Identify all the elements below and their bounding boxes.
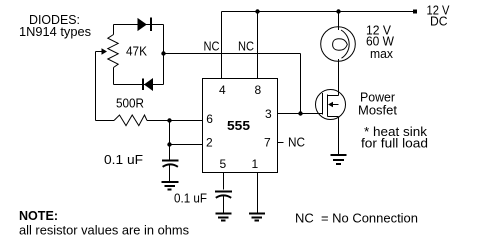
svg-text:0.1 uF: 0.1 uF: [104, 152, 143, 167]
gate bar: [322, 93, 324, 115]
drain internal: [328, 95, 339, 97]
svg-text:2: 2: [206, 136, 213, 150]
node junction pin2: [167, 142, 171, 146]
ground under C1: [162, 181, 179, 183]
channel bar: [327, 95, 329, 117]
wire pin3 to gate: [278, 113, 323, 115]
wire wiper to resistor: [96, 120, 115, 122]
wire pot loop top: [114, 24, 164, 26]
svg-text:all resistor values are in ohm: all resistor values are in ohms: [19, 223, 189, 238]
wire down to pin2 junction: [169, 121, 171, 160]
wire pot bottom lead: [113, 68, 115, 85]
svg-text:500R: 500R: [116, 96, 144, 111]
wire lamp top lead: [338, 12, 340, 31]
svg-text:1: 1: [252, 157, 259, 171]
svg-text:5: 5: [220, 157, 227, 171]
resistor R2 500R: [114, 115, 147, 126]
node rail/pin8: [255, 9, 259, 13]
svg-text:0.1 uF: 0.1 uF: [174, 191, 207, 206]
ground under mosfet: [331, 154, 347, 156]
capacitor C2 0.1uF: [215, 191, 232, 193]
ground under C2: [216, 213, 232, 215]
svg-text:DC: DC: [430, 14, 448, 29]
diode D1 (top, pointing right): [138, 19, 146, 30]
svg-text:7: 7: [264, 136, 271, 150]
pin 7 stub: [278, 142, 284, 144]
wire pot loop right side: [163, 25, 165, 85]
svg-text:NC: NC: [288, 135, 305, 150]
wire pin2: [170, 144, 203, 146]
node junction pin3: [298, 111, 302, 115]
svg-text:3: 3: [265, 107, 272, 121]
svg-text:8: 8: [255, 83, 262, 97]
wire top supply rail: [222, 11, 414, 13]
svg-text:Mosfet: Mosfet: [358, 103, 397, 118]
svg-text:4: 4: [219, 83, 226, 97]
svg-text:6: 6: [206, 112, 213, 126]
svg-text:NC: NC: [204, 39, 220, 54]
svg-text:NC: NC: [238, 39, 254, 54]
wire cross horizontal to pin3: [164, 53, 301, 55]
node junction at cap/pin6: [167, 118, 171, 122]
potentiometer R1 47K body: [108, 35, 118, 68]
transistor Q1 power mosfet: [316, 90, 346, 120]
substrate arrow: [332, 104, 339, 106]
wire pin1 down: [257, 173, 259, 213]
svg-text:NOTE:: NOTE:: [19, 208, 58, 223]
wire pot loop bottom: [114, 84, 164, 86]
wire wiper down: [95, 52, 97, 121]
svg-text:max: max: [370, 46, 393, 61]
svg-text:555: 555: [227, 118, 250, 133]
wire pin4 up: [221, 12, 223, 79]
lamp LP1: [321, 27, 356, 62]
op-amp U1 555 timer box: [203, 79, 278, 173]
wiper arrow: [96, 51, 103, 53]
svg-text:47K: 47K: [126, 44, 147, 59]
wire pot top lead: [113, 25, 115, 35]
node rail/lamp: [336, 9, 340, 13]
wire pin5 down: [223, 173, 225, 190]
diode D2 (bottom, pointing left): [145, 79, 153, 90]
wire pin8 up: [257, 12, 259, 79]
svg-text:NC = No Connection: NC = No Connection: [295, 211, 418, 226]
node junction pot right: [161, 51, 165, 55]
wire resistor to pin6: [147, 120, 203, 122]
svg-text:1N914 types: 1N914 types: [19, 24, 91, 39]
source internal: [328, 116, 339, 118]
svg-text:for full load: for full load: [361, 136, 428, 151]
terminal 12V DC: [413, 10, 417, 14]
ground under pin1: [249, 213, 265, 215]
wire down to pin3 junction: [300, 54, 302, 114]
wire lamp to mosfet drain: [338, 59, 340, 96]
wire source down: [338, 117, 340, 155]
capacitor C1 0.1uF: [162, 160, 179, 162]
